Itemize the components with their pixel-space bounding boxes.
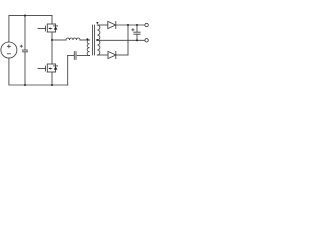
node secondary top polarity dot [96,22,98,24]
wire secondary tap rail [97,39,145,41]
terminal output minus [145,39,148,42]
wire upper source to midpoint [51,32,53,40]
wire top rail [9,15,52,17]
capacitor C1 stem top [24,16,26,50]
node input cap bottom junction [24,84,26,86]
wire D2 riser [127,25,129,55]
node half-bridge midpoint [51,39,53,41]
wire D1 cathode to output plus [116,24,145,26]
transformer T1 core [93,25,95,55]
wire upper drain drop [51,16,53,24]
diode D2 [108,51,116,58]
diode D1 [108,21,116,28]
wire return corner down [67,56,69,86]
inductor Lr [66,38,80,40]
capacitor C2 [134,32,140,34]
capacitor C1 stem bottom [24,52,26,85]
wire lower source lead [51,72,53,85]
transistor Q2 lower mosfet [38,64,58,72]
dc source V1 [1,42,17,58]
node secondary tap polarity dot [96,39,98,41]
wire bottom rail [9,84,68,86]
wire resonant cap left of primary [77,55,89,57]
capacitor C1 [22,50,27,52]
capacitor C2 stem bottom [136,34,138,40]
transformer T1 secondary winding [97,25,100,55]
wire midpoint to lower drain [51,40,53,64]
node output cap bottom junction [136,39,138,41]
capacitor C2 stem top [136,25,138,32]
wire secondary top to rectifier [97,24,108,26]
terminal output plus [145,23,148,26]
wire midpoint to inductor [52,39,66,41]
transformer T1 primary winding [87,40,89,56]
node input cap top junction [24,15,26,17]
node output cap top junction [136,24,138,26]
node primary polarity dot [86,38,88,40]
wire inductor to primary [80,39,90,41]
wire source top lead [8,16,10,42]
wire secondary bottom to D2 [97,54,108,56]
capacitor Cr [74,52,76,60]
node D2 riser junction [127,24,129,26]
wire source bottom lead [8,58,10,85]
capacitor C1 plus mark [20,45,22,47]
wire cap to corner [68,55,74,57]
node lower source junction [51,84,53,86]
transistor Q1 upper mosfet [38,24,58,32]
capacitor C2 plus mark [132,29,134,31]
wire D2 cathode to riser [116,54,128,56]
